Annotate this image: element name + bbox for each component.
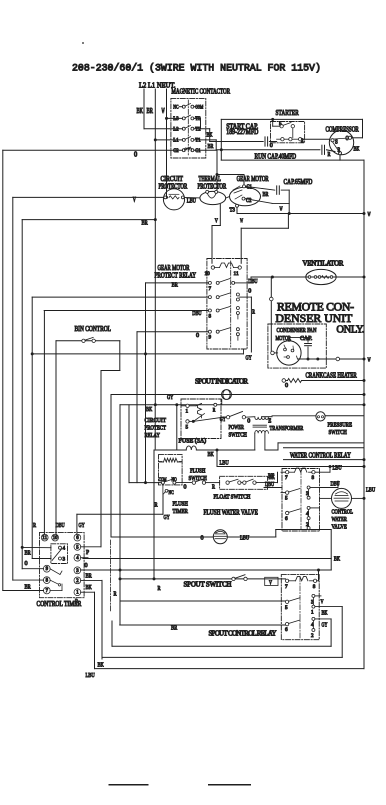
svg-text:W: W xyxy=(368,357,372,364)
svg-text:T3: T3 xyxy=(230,208,236,214)
svg-text:FLOAT SWITCH: FLOAT SWITCH xyxy=(214,493,251,500)
svg-text:W: W xyxy=(240,218,244,225)
svg-text:DBU: DBU xyxy=(192,310,201,317)
svg-text:ONLY.: ONLY. xyxy=(336,325,364,336)
svg-text:V: V xyxy=(269,579,272,586)
svg-text:RELAY: RELAY xyxy=(145,432,161,439)
svg-text:L2: L2 xyxy=(173,127,178,133)
svg-text:GEAR MOTOR: GEAR MOTOR xyxy=(158,265,190,272)
svg-text:WATER CONTROL RELAY: WATER CONTROL RELAY xyxy=(290,452,351,459)
svg-text:BR: BR xyxy=(172,281,179,288)
svg-text:CIRCUIT: CIRCUIT xyxy=(161,176,184,183)
svg-text:NC: NC xyxy=(169,490,174,496)
svg-text:T2: T2 xyxy=(195,127,200,133)
svg-text:BK: BK xyxy=(334,556,340,563)
svg-text:0: 0 xyxy=(25,560,28,567)
svg-text:7: 7 xyxy=(285,584,288,590)
svg-text:SPOUT INDICATOR: SPOUT INDICATOR xyxy=(195,378,248,385)
svg-text:DBU: DBU xyxy=(56,522,65,529)
svg-text:GY: GY xyxy=(79,522,85,529)
svg-text:0: 0 xyxy=(201,534,204,541)
svg-text:SPOUT CONTROL RELAY: SPOUT CONTROL RELAY xyxy=(209,630,277,637)
svg-text:0: 0 xyxy=(184,484,187,491)
svg-text:V: V xyxy=(133,197,136,204)
svg-text:1: 1 xyxy=(311,610,314,616)
svg-text:8: 8 xyxy=(209,313,212,319)
svg-text:5: 5 xyxy=(279,121,282,127)
svg-text:E: E xyxy=(268,417,271,424)
svg-text:208-230/60/1 (3WIRE WITH NEUTR: 208-230/60/1 (3WIRE WITH NEUTRAL FOR 115… xyxy=(72,63,321,74)
svg-text:NC: NC xyxy=(173,105,178,111)
svg-text:0: 0 xyxy=(196,332,199,339)
svg-text:BR: BR xyxy=(25,549,32,556)
svg-text:T3: T3 xyxy=(195,116,200,122)
svg-text:11: 11 xyxy=(42,535,47,541)
svg-text:W: W xyxy=(280,206,284,213)
svg-text:0: 0 xyxy=(85,562,88,569)
svg-text:2: 2 xyxy=(311,633,314,639)
svg-text:5: 5 xyxy=(285,605,288,611)
svg-text:189-227MFD: 189-227MFD xyxy=(226,129,258,136)
svg-text:11: 11 xyxy=(234,271,239,277)
svg-text:5: 5 xyxy=(285,496,288,502)
svg-text:BK: BK xyxy=(86,584,92,591)
svg-text:PROTECTOR: PROTECTOR xyxy=(159,184,188,191)
svg-text:5: 5 xyxy=(186,425,189,431)
svg-text:BK: BK xyxy=(208,451,214,458)
svg-text:0: 0 xyxy=(248,288,251,295)
svg-text:8: 8 xyxy=(312,475,315,481)
svg-text:0: 0 xyxy=(285,382,288,389)
svg-text:BR: BR xyxy=(171,624,178,631)
svg-text:P: P xyxy=(86,549,89,556)
svg-text:C: C xyxy=(346,136,349,142)
svg-text:V: V xyxy=(215,218,218,225)
svg-text:FLUSH: FLUSH xyxy=(173,500,189,507)
svg-text:BR: BR xyxy=(25,583,32,590)
svg-text:VALVE: VALVE xyxy=(332,523,347,530)
svg-text:SWITCH: SWITCH xyxy=(229,431,248,438)
svg-text:R: R xyxy=(252,310,255,316)
svg-text:4: 4 xyxy=(63,546,66,552)
svg-text:SWITCH: SWITCH xyxy=(329,429,348,436)
svg-text:GEAR MOTOR: GEAR MOTOR xyxy=(237,176,269,183)
svg-text:6: 6 xyxy=(285,516,288,522)
svg-text:LBU: LBU xyxy=(366,487,375,494)
svg-text:PROTECTOR: PROTECTOR xyxy=(198,184,227,191)
svg-text:L2 L1 NEUT.: L2 L1 NEUT. xyxy=(139,82,176,90)
svg-text:R: R xyxy=(155,502,159,509)
svg-text:WATER: WATER xyxy=(332,516,348,523)
svg-text:T1: T1 xyxy=(195,138,200,144)
svg-text:BR: BR xyxy=(86,572,93,579)
svg-text:BR: BR xyxy=(147,108,154,115)
svg-text:PRESSURE: PRESSURE xyxy=(328,421,353,428)
svg-text:S: S xyxy=(335,140,338,146)
svg-text:CONTROL: CONTROL xyxy=(332,508,354,515)
svg-text:CAP.: CAP. xyxy=(300,335,313,342)
svg-text:LBU: LBU xyxy=(240,535,249,542)
svg-text:LBU: LBU xyxy=(333,464,342,471)
svg-text:FLUSH WATER VALVE: FLUSH WATER VALVE xyxy=(204,510,258,517)
svg-text:C1: C1 xyxy=(195,148,200,154)
svg-text:FUSE (3A): FUSE (3A) xyxy=(179,438,207,445)
svg-text:RUN CAP.40MFD: RUN CAP.40MFD xyxy=(255,153,297,160)
svg-text:4: 4 xyxy=(311,622,314,628)
svg-text:9: 9 xyxy=(209,335,212,341)
svg-text:DENSER UNIT: DENSER UNIT xyxy=(275,311,353,325)
svg-text:7: 7 xyxy=(209,286,212,292)
svg-text:3: 3 xyxy=(311,599,314,605)
svg-text:THERMAL: THERMAL xyxy=(199,176,221,183)
svg-text:0: 0 xyxy=(270,142,273,149)
svg-text:DBU: DBU xyxy=(331,480,340,487)
svg-text:POWER: POWER xyxy=(229,424,245,431)
svg-text:LBU: LBU xyxy=(86,672,95,679)
svg-text:LBU: LBU xyxy=(220,459,229,466)
svg-text:COM: COM xyxy=(195,105,203,111)
svg-text:W: W xyxy=(368,211,372,218)
svg-text:BK: BK xyxy=(354,146,360,153)
svg-text:FLUSH: FLUSH xyxy=(190,467,206,474)
svg-text:BR: BR xyxy=(263,191,269,198)
svg-text:TRANSFORMER: TRANSFORMER xyxy=(270,425,304,432)
svg-text:SPOUT SWITCH: SPOUT SWITCH xyxy=(184,581,232,588)
svg-text:PROTECT RELAY: PROTECT RELAY xyxy=(155,273,197,280)
svg-text:BK: BK xyxy=(322,609,328,616)
svg-text:BK: BK xyxy=(146,406,152,413)
svg-text:STARTER: STARTER xyxy=(276,109,299,117)
svg-text:BR: BR xyxy=(142,220,149,227)
svg-text:W: W xyxy=(162,108,166,115)
svg-text:CONDENSER FAN: CONDENSER FAN xyxy=(277,327,317,334)
svg-text:L1: L1 xyxy=(173,138,178,144)
svg-text:CAP.65MFD: CAP.65MFD xyxy=(284,179,313,186)
svg-text:VENTILATOR: VENTILATOR xyxy=(303,261,344,268)
svg-text:8: 8 xyxy=(313,584,316,590)
svg-text:0: 0 xyxy=(247,417,250,424)
svg-text:CRANKCASE HEATER: CRANKCASE HEATER xyxy=(306,372,358,379)
svg-text:3: 3 xyxy=(63,557,66,563)
svg-text:C2: C2 xyxy=(173,148,178,154)
svg-text:L3: L3 xyxy=(173,116,178,122)
svg-text:TIMER: TIMER xyxy=(173,508,189,515)
svg-text:COMPRESSOR: COMPRESSOR xyxy=(326,125,359,133)
svg-text:10: 10 xyxy=(205,271,210,277)
svg-text:7: 7 xyxy=(285,475,288,481)
svg-text:GY: GY xyxy=(164,514,170,521)
svg-text:BK: BK xyxy=(137,108,143,115)
svg-text:LBU: LBU xyxy=(187,197,196,204)
svg-text:1: 1 xyxy=(186,409,189,415)
svg-text:BK: BK xyxy=(98,661,104,668)
svg-text:10: 10 xyxy=(53,535,58,541)
svg-text:6: 6 xyxy=(285,627,288,633)
svg-text:3: 3 xyxy=(306,491,309,497)
svg-text:R: R xyxy=(75,598,79,605)
svg-text:BIN CONTROL: BIN CONTROL xyxy=(75,325,112,333)
svg-text:R: R xyxy=(114,591,118,598)
svg-text:R: R xyxy=(33,522,37,529)
svg-text:R: R xyxy=(158,585,162,592)
svg-text:BK: BK xyxy=(268,472,274,479)
svg-text:GY: GY xyxy=(167,394,173,401)
svg-text:V: V xyxy=(321,598,324,605)
svg-text:GY: GY xyxy=(246,355,252,362)
svg-text:MAGNETIC CONTACTOR: MAGNETIC CONTACTOR xyxy=(171,89,230,96)
svg-text:R: R xyxy=(213,407,216,413)
svg-text:4: 4 xyxy=(306,511,309,517)
svg-text:DBU: DBU xyxy=(265,481,274,488)
svg-text:BR: BR xyxy=(208,143,214,150)
svg-text:BK: BK xyxy=(207,132,213,139)
svg-text:GY: GY xyxy=(322,622,328,629)
svg-text:DBU: DBU xyxy=(248,278,257,285)
